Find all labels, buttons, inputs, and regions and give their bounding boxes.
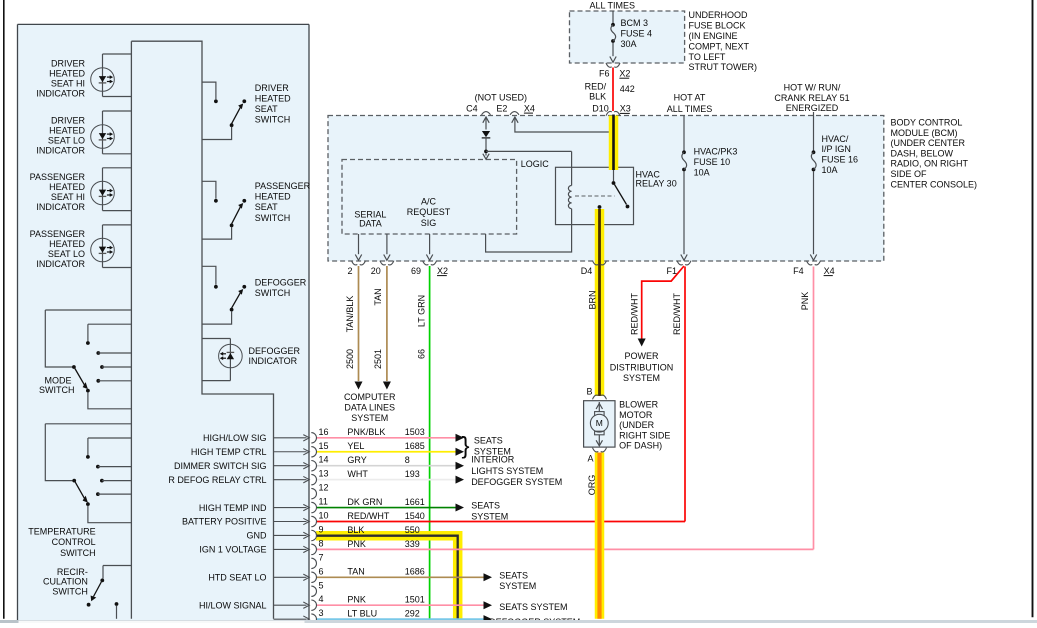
svg-text:LIGHTS SYSTEM: LIGHTS SYSTEM: [471, 466, 543, 476]
svg-text:SEATS SYSTEM: SEATS SYSTEM: [499, 602, 567, 612]
svg-text:BODY CONTROL: BODY CONTROL: [891, 118, 963, 128]
svg-text:2501: 2501: [373, 349, 383, 369]
svg-text:1501: 1501: [405, 595, 425, 605]
svg-text:339: 339: [405, 539, 420, 549]
svg-text:HEATED: HEATED: [49, 126, 85, 136]
svg-text:RADIO, ON RIGHT: RADIO, ON RIGHT: [891, 159, 969, 169]
svg-text:DRIVER: DRIVER: [51, 116, 86, 126]
svg-text:BCM 3: BCM 3: [621, 18, 649, 28]
svg-text:10A: 10A: [822, 165, 838, 175]
svg-text:F6: F6: [599, 68, 610, 78]
svg-text:1686: 1686: [405, 567, 425, 577]
svg-text:PASSENGER: PASSENGER: [30, 172, 86, 182]
svg-text:X2: X2: [619, 68, 630, 78]
svg-text:DEFOGGER SYSTEM: DEFOGGER SYSTEM: [471, 477, 562, 487]
svg-text:SWITCH: SWITCH: [52, 586, 88, 596]
svg-text:BLK: BLK: [347, 525, 364, 535]
svg-text:66: 66: [417, 349, 427, 359]
svg-text:HEATED: HEATED: [255, 192, 291, 202]
svg-text:15: 15: [319, 441, 329, 451]
svg-text:(UNDER: (UNDER: [619, 420, 654, 430]
svg-text:2500: 2500: [345, 349, 355, 369]
svg-text:}: }: [462, 433, 470, 460]
svg-text:F4: F4: [793, 266, 804, 276]
svg-text:RED/: RED/: [585, 82, 607, 92]
svg-text:DATA: DATA: [359, 219, 382, 229]
svg-text:5: 5: [319, 580, 324, 590]
svg-text:LOGIC: LOGIC: [521, 159, 550, 169]
svg-text:E2: E2: [496, 103, 507, 113]
svg-text:PNK/BLK: PNK/BLK: [347, 427, 385, 437]
svg-text:FUSE BLOCK: FUSE BLOCK: [689, 21, 746, 31]
svg-text:11: 11: [319, 497, 328, 507]
svg-text:SEAT LO: SEAT LO: [48, 136, 85, 146]
svg-text:PASSENGER: PASSENGER: [30, 229, 86, 239]
svg-text:DK GRN: DK GRN: [347, 497, 382, 507]
svg-text:3: 3: [319, 608, 324, 618]
svg-text:HVAC/: HVAC/: [822, 134, 849, 144]
svg-text:R DEFOG RELAY CTRL: R DEFOG RELAY CTRL: [168, 475, 266, 485]
svg-text:DRIVER: DRIVER: [255, 83, 290, 93]
svg-text:CULATION: CULATION: [43, 576, 88, 586]
svg-text:SWITCH: SWITCH: [255, 213, 290, 223]
svg-text:SWITCH: SWITCH: [39, 385, 75, 395]
svg-text:HIGH/LOW SIG: HIGH/LOW SIG: [203, 433, 267, 443]
svg-text:TO LEFT: TO LEFT: [689, 52, 726, 62]
svg-text:SEAT LO: SEAT LO: [48, 249, 85, 259]
svg-text:4: 4: [319, 594, 324, 604]
svg-text:GND: GND: [247, 531, 268, 541]
svg-text:HI/LOW SIGNAL: HI/LOW SIGNAL: [199, 600, 267, 610]
svg-text:SIDE OF: SIDE OF: [891, 169, 928, 179]
svg-text:COMPUTER: COMPUTER: [344, 392, 396, 402]
svg-text:REQUEST: REQUEST: [407, 207, 451, 217]
svg-text:SEATS: SEATS: [499, 570, 528, 580]
svg-text:TEMPERATURE: TEMPERATURE: [28, 527, 95, 537]
svg-text:COMPT, NEXT: COMPT, NEXT: [689, 41, 750, 51]
svg-text:F1: F1: [666, 266, 677, 276]
svg-text:UNDERHOOD: UNDERHOOD: [689, 10, 749, 20]
svg-text:HIGH TEMP IND: HIGH TEMP IND: [199, 503, 267, 513]
svg-text:INDICATOR: INDICATOR: [249, 356, 298, 366]
svg-text:HEATED: HEATED: [49, 69, 85, 79]
svg-text:X4: X4: [824, 266, 835, 276]
svg-text:(NOT USED): (NOT USED): [475, 93, 527, 103]
svg-text:7: 7: [319, 552, 324, 562]
svg-text:SEAT HI: SEAT HI: [51, 192, 85, 202]
svg-text:MODE: MODE: [45, 375, 72, 385]
svg-text:HOT AT: HOT AT: [674, 93, 706, 103]
svg-text:12: 12: [319, 483, 329, 493]
svg-text:B: B: [586, 387, 592, 397]
svg-text:69: 69: [411, 266, 421, 276]
svg-text:442: 442: [620, 84, 635, 94]
svg-text:DASH, BELOW: DASH, BELOW: [891, 148, 954, 158]
svg-text:INDICATOR: INDICATOR: [36, 202, 85, 212]
svg-text:DATA LINES: DATA LINES: [344, 402, 395, 412]
svg-text:M: M: [596, 418, 603, 428]
svg-text:STRUT TOWER): STRUT TOWER): [689, 62, 758, 72]
svg-text:292: 292: [405, 609, 420, 619]
svg-text:LT GRN: LT GRN: [417, 295, 427, 327]
svg-text:SWITCH: SWITCH: [255, 114, 290, 124]
svg-text:CRANK RELAY 51: CRANK RELAY 51: [774, 93, 849, 103]
svg-text:PNK: PNK: [347, 539, 366, 549]
svg-text:D4: D4: [581, 266, 593, 276]
svg-text:PNK: PNK: [800, 292, 810, 311]
svg-text:HVAC/PK3: HVAC/PK3: [694, 147, 738, 157]
svg-text:8: 8: [405, 455, 410, 465]
svg-text:9: 9: [319, 524, 324, 534]
svg-text:BATTERY POSITIVE: BATTERY POSITIVE: [182, 517, 267, 527]
svg-text:(UNDER CENTER: (UNDER CENTER: [891, 138, 966, 148]
svg-text:SEAT: SEAT: [255, 202, 278, 212]
svg-text:1685: 1685: [405, 441, 425, 451]
svg-text:X2: X2: [437, 266, 448, 276]
svg-text:MODULE (BCM): MODULE (BCM): [891, 128, 958, 138]
svg-text:A: A: [587, 453, 593, 463]
svg-text:ENERGIZED: ENERGIZED: [786, 103, 839, 113]
svg-text:14: 14: [319, 455, 329, 465]
svg-text:POWER: POWER: [624, 351, 659, 361]
svg-text:RED/WHT: RED/WHT: [672, 293, 682, 335]
svg-text:OF DASH): OF DASH): [619, 441, 662, 451]
svg-text:SYSTEM: SYSTEM: [351, 413, 388, 423]
svg-text:I/P IGN: I/P IGN: [822, 144, 851, 154]
svg-text:C4: C4: [466, 103, 478, 113]
svg-text:HEATED: HEATED: [255, 93, 291, 103]
svg-text:13: 13: [319, 469, 329, 479]
svg-text:SEAT: SEAT: [255, 104, 278, 114]
svg-text:TAN: TAN: [347, 567, 364, 577]
svg-text:YEL: YEL: [347, 441, 364, 451]
svg-text:HEATED: HEATED: [49, 182, 85, 192]
svg-text:6: 6: [319, 566, 324, 576]
svg-text:BRN: BRN: [588, 290, 598, 309]
svg-text:RED/WHT: RED/WHT: [630, 293, 640, 335]
svg-text:X3: X3: [620, 104, 631, 114]
svg-text:16: 16: [319, 427, 329, 437]
svg-text:1503: 1503: [405, 427, 425, 437]
svg-text:FUSE 16: FUSE 16: [822, 155, 859, 165]
svg-text:DRIVER: DRIVER: [51, 59, 86, 69]
svg-text:SWITCH: SWITCH: [60, 548, 96, 558]
svg-text:RED/WHT: RED/WHT: [347, 511, 389, 521]
svg-text:SEATS: SEATS: [471, 501, 500, 511]
svg-text:INDICATOR: INDICATOR: [36, 88, 85, 98]
svg-text:INTERIOR: INTERIOR: [471, 455, 515, 465]
svg-text:ALL TIMES: ALL TIMES: [590, 0, 636, 10]
svg-text:CENTER CONSOLE): CENTER CONSOLE): [891, 179, 978, 189]
svg-text:SYSTEM: SYSTEM: [623, 373, 660, 383]
svg-text:FUSE 10: FUSE 10: [694, 157, 731, 167]
svg-text:1540: 1540: [405, 511, 425, 521]
svg-text:SWITCH: SWITCH: [255, 288, 290, 298]
svg-text:INDICATOR: INDICATOR: [36, 259, 85, 269]
svg-text:RELAY 30: RELAY 30: [636, 179, 677, 189]
svg-text:HIGH TEMP CTRL: HIGH TEMP CTRL: [191, 447, 267, 457]
svg-text:A/C: A/C: [421, 197, 437, 207]
svg-text:GRY: GRY: [347, 455, 366, 465]
svg-text:SEAT HI: SEAT HI: [51, 79, 85, 89]
svg-text:HEATED: HEATED: [49, 239, 85, 249]
svg-text:SEATS: SEATS: [474, 436, 503, 446]
svg-text:PNK: PNK: [347, 595, 366, 605]
svg-text:PASSENGER: PASSENGER: [255, 181, 311, 191]
svg-text:BLOWER: BLOWER: [619, 400, 659, 410]
svg-text:SYSTEM: SYSTEM: [499, 581, 536, 591]
svg-text:10A: 10A: [694, 167, 710, 177]
svg-text:SYSTEM: SYSTEM: [471, 511, 508, 521]
svg-text:20: 20: [371, 266, 381, 276]
svg-text:X4: X4: [524, 103, 535, 113]
svg-text:BLK: BLK: [589, 92, 606, 102]
svg-text:HOT W/ RUN/: HOT W/ RUN/: [784, 83, 841, 93]
svg-text:DIMMER SWITCH SIG: DIMMER SWITCH SIG: [174, 461, 267, 471]
svg-text:LT BLU: LT BLU: [347, 609, 377, 619]
svg-text:IGN 1 VOLTAGE: IGN 1 VOLTAGE: [199, 545, 266, 555]
svg-text:TAN: TAN: [373, 288, 383, 305]
svg-text:DEFOGGER: DEFOGGER: [249, 346, 301, 356]
svg-text:2: 2: [347, 266, 352, 276]
svg-text:8: 8: [319, 538, 324, 548]
svg-text:RIGHT SIDE: RIGHT SIDE: [619, 430, 670, 440]
svg-text:HTD SEAT LO: HTD SEAT LO: [208, 573, 266, 583]
svg-text:ALL TIMES: ALL TIMES: [667, 104, 713, 114]
svg-text:550: 550: [405, 525, 420, 535]
svg-text:D10: D10: [592, 104, 609, 114]
svg-text:INDICATOR: INDICATOR: [36, 145, 85, 155]
svg-text:1661: 1661: [405, 497, 425, 507]
svg-text:30A: 30A: [621, 39, 637, 49]
svg-text:10: 10: [319, 511, 329, 521]
svg-text:FUSE 4: FUSE 4: [621, 29, 653, 39]
svg-text:WHT: WHT: [347, 469, 368, 479]
svg-text:SIG: SIG: [421, 218, 437, 228]
svg-text:CONTROL: CONTROL: [52, 537, 96, 547]
svg-text:(IN ENGINE: (IN ENGINE: [689, 31, 738, 41]
svg-text:TAN/BLK: TAN/BLK: [345, 296, 355, 333]
svg-text:DEFOGGER: DEFOGGER: [255, 278, 307, 288]
svg-text:MOTOR: MOTOR: [619, 410, 653, 420]
svg-text:193: 193: [405, 469, 420, 479]
svg-text:DISTRIBUTION: DISTRIBUTION: [610, 362, 674, 372]
